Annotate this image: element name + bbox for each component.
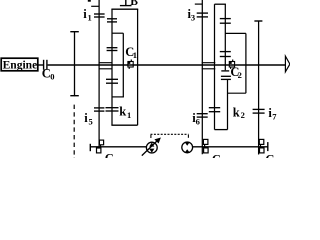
brake B friction plates <box>107 18 117 20</box>
hydraulic pump circle <box>146 142 157 153</box>
k2 loop bottom <box>215 129 228 131</box>
junction coupling 2 <box>203 139 208 153</box>
bottom wire to pump <box>90 146 146 148</box>
C2 branch line down <box>227 79 229 129</box>
svg-text:2: 2 <box>241 110 245 120</box>
brake B ground symbol <box>125 0 127 5</box>
brake B bracket top <box>111 8 138 10</box>
inertia i6 plates <box>197 113 208 115</box>
bottom wire motor to end <box>193 146 268 148</box>
svg-text:0: 0 <box>50 72 54 82</box>
bracket left leg / k2 loop left <box>214 4 216 129</box>
svg-text:2: 2 <box>238 70 242 80</box>
shaft 1 (i1/i5) <box>98 0 100 147</box>
tick to ring line <box>112 32 123 34</box>
T cap below main <box>221 70 229 72</box>
friction plates upper unit2 <box>220 18 231 20</box>
inertia i7 plates <box>253 108 265 110</box>
svg-text:k: k <box>119 105 126 119</box>
gear plates lower <box>106 78 118 80</box>
svg-text:1: 1 <box>133 50 137 60</box>
bottom line left T cap <box>89 144 91 151</box>
stiffness k2 plates <box>209 107 220 109</box>
svg-text:C: C <box>265 152 274 158</box>
main shaft wire <box>48 64 286 66</box>
inertia i3 plates <box>197 12 208 14</box>
bottom line right T cap <box>267 142 269 151</box>
svg-text:k: k <box>233 106 240 120</box>
ring line (C1 branch) <box>122 33 124 97</box>
svg-text:1: 1 <box>127 110 131 120</box>
jog tick unit2 <box>225 32 246 34</box>
shaft 2 (i3/i6) <box>201 0 203 154</box>
gear plates unit2 <box>220 51 231 53</box>
carrier bars unit 2 <box>202 62 216 64</box>
shaft 3 (i7) <box>258 21 260 155</box>
dashed reference line <box>73 105 75 158</box>
svg-text:7: 7 <box>272 112 277 122</box>
junction coupling 3 <box>259 139 264 153</box>
control dashed link <box>151 133 189 135</box>
svg-text:Engine: Engine <box>3 58 38 72</box>
brake B left leg <box>111 9 113 125</box>
lever shaft node <box>74 32 76 97</box>
carrier bars unit 1 <box>99 62 113 64</box>
bracket right leg <box>224 4 226 70</box>
clutch C0 plates <box>43 60 45 70</box>
svg-text:C: C <box>212 152 221 158</box>
svg-text:1: 1 <box>88 13 92 23</box>
clutch C1 hook <box>128 60 133 69</box>
motor triangles <box>185 142 190 146</box>
tick on shaft 2 <box>195 3 203 5</box>
pump variable arrow <box>142 140 158 156</box>
k1 loop bottom <box>111 124 137 126</box>
tick to k1 loop <box>112 96 124 98</box>
C2 lower plates <box>221 75 231 77</box>
jog line down <box>245 33 247 93</box>
tick on shaft 1 <box>91 5 99 7</box>
jog bottom tick <box>228 92 246 94</box>
svg-text:3: 3 <box>191 13 195 23</box>
brake B right leg / k1 loop right <box>137 9 139 125</box>
wire engine to clutch C0 <box>38 64 43 66</box>
svg-text:5: 5 <box>89 116 93 126</box>
junction coupling 1 <box>97 140 104 153</box>
gear plates upper <box>107 47 118 49</box>
svg-text:6: 6 <box>196 117 200 127</box>
cut mark top <box>88 0 91 2</box>
inertia i5 plates <box>94 107 104 109</box>
svg-text:B: B <box>130 0 138 8</box>
svg-text:C: C <box>105 151 114 158</box>
pump triangles <box>149 143 154 147</box>
inertia i1 plates <box>94 13 105 15</box>
Engine box <box>1 58 38 71</box>
bracket top unit 2 <box>215 3 226 5</box>
clutch C2 hook <box>229 60 234 69</box>
output arrow <box>285 56 290 72</box>
stiffness k1 plates <box>106 107 119 109</box>
hydraulic motor circle <box>182 142 193 153</box>
